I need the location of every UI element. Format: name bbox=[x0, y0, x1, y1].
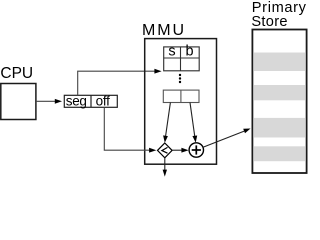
register divider bbox=[90, 95, 92, 107]
segment table column line bbox=[180, 47, 182, 71]
MMU box bbox=[145, 39, 217, 165]
segment band 4 bbox=[253, 146, 305, 161]
segment table s|b bbox=[164, 47, 200, 71]
descriptor register bbox=[163, 90, 199, 102]
svg-text:s: s bbox=[168, 44, 175, 60]
svg-text:CPU: CPU bbox=[0, 65, 33, 82]
adder circle bbox=[189, 143, 203, 157]
ellipsis dots bbox=[179, 74, 181, 76]
wire comparator to adder bbox=[172, 149, 182, 151]
descriptor register divider bbox=[180, 90, 182, 102]
wire descriptor size to comparator bbox=[166, 103, 171, 137]
svg-text:MMU: MMU bbox=[142, 22, 186, 39]
CPU box bbox=[1, 84, 36, 120]
wire descriptor base to adder bbox=[190, 103, 195, 137]
register seg|off bbox=[64, 95, 117, 107]
wire comparator violation out bbox=[164, 158, 166, 170]
wire off to comparator bbox=[104, 107, 149, 150]
adder plus bbox=[192, 149, 201, 151]
svg-text:off: off bbox=[96, 94, 110, 109]
label less-than bbox=[162, 147, 168, 153]
segment band 2 bbox=[253, 85, 305, 100]
comparator diamond bbox=[158, 143, 173, 158]
primary store box bbox=[252, 30, 306, 174]
wire adder to primary store bbox=[203, 131, 244, 147]
wire CPU to seg/off register bbox=[36, 100, 56, 102]
segment band 3 bbox=[253, 118, 305, 138]
svg-text:Store: Store bbox=[251, 14, 287, 30]
svg-text:b: b bbox=[185, 44, 193, 60]
segment table row line bbox=[164, 57, 200, 59]
svg-text:seg: seg bbox=[66, 94, 87, 109]
wire seg to segment table bbox=[78, 71, 155, 95]
segment band 1 bbox=[253, 53, 305, 72]
